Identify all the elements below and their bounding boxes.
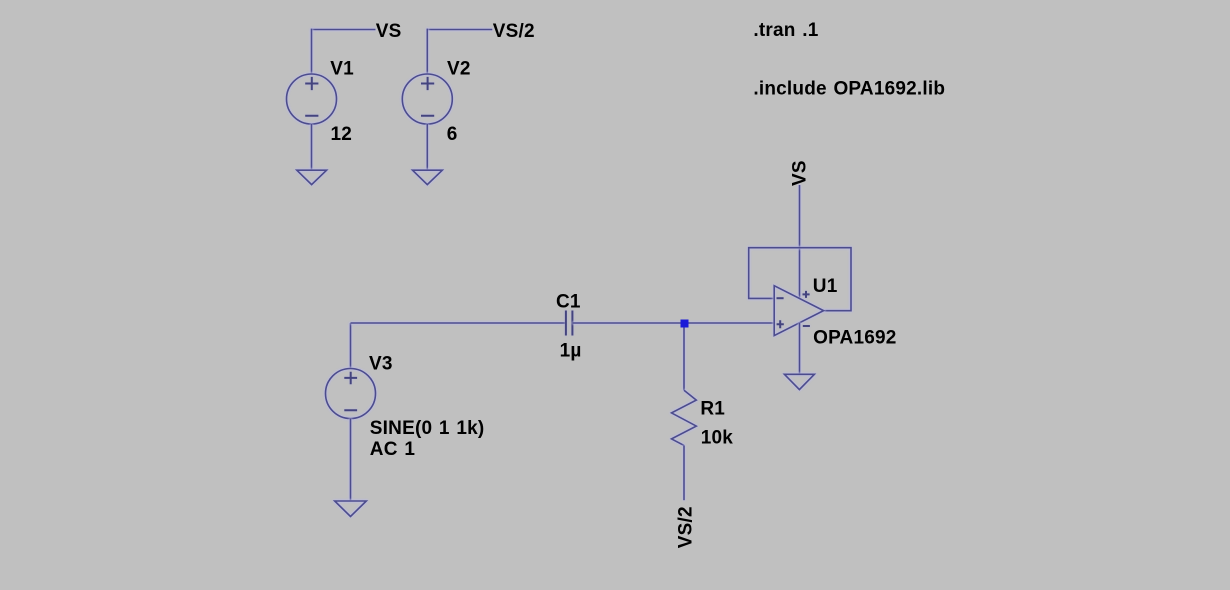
- wire R1 bottom: [683, 445, 685, 500]
- svg-text:6: 6: [447, 124, 458, 145]
- svg-text:VS: VS: [790, 160, 811, 186]
- svg-text:VS/2: VS/2: [493, 21, 535, 42]
- svg-text:U1: U1: [813, 276, 838, 297]
- wire VS to op-amp V+: [799, 185, 801, 298]
- supply plus mark: [803, 291, 810, 298]
- op-amp U1 triangle: [774, 286, 823, 336]
- feedback wire output to inverting input: [749, 248, 851, 311]
- resistor R1: [672, 390, 697, 445]
- svg-text:12: 12: [331, 124, 353, 145]
- ground under V3: [335, 501, 367, 517]
- wire node to R1: [683, 323, 685, 390]
- voltage source V2: [402, 74, 452, 124]
- svg-text:V1: V1: [330, 59, 354, 80]
- svg-text:AC 1: AC 1: [370, 439, 416, 460]
- non-inverting input mark: [777, 320, 784, 328]
- wire C1 to node: [572, 322, 684, 324]
- wire V2 top vertical: [426, 29, 428, 75]
- svg-text:VS: VS: [376, 21, 402, 42]
- wire V2 top horizontal to net VS/2: [427, 29, 492, 31]
- svg-text:10k: 10k: [701, 428, 734, 449]
- junction node: [681, 320, 689, 328]
- ground under V2: [413, 170, 443, 184]
- ground under op-amp: [784, 374, 814, 389]
- voltage source V3: [326, 369, 376, 419]
- wire V2 bottom: [426, 124, 428, 170]
- voltage source V1: [287, 74, 337, 124]
- svg-text:.include OPA1692.lib: .include OPA1692.lib: [753, 79, 945, 100]
- svg-text:1µ: 1µ: [560, 341, 582, 362]
- svg-text:VS/2: VS/2: [676, 506, 697, 548]
- wire V1 top vertical: [311, 29, 313, 75]
- wire V3 bottom: [350, 419, 352, 502]
- capacitor C1: [566, 311, 573, 336]
- supply minus mark: [803, 325, 810, 327]
- wire V3 top: [350, 323, 352, 369]
- svg-text:SINE(0 1 1k): SINE(0 1 1k): [370, 418, 485, 439]
- wire op-amp V- to ground: [799, 323, 801, 374]
- svg-text:V3: V3: [369, 354, 393, 375]
- wire V1 top horizontal to net VS: [312, 29, 376, 31]
- wire V1 bottom: [311, 124, 313, 170]
- svg-text:OPA1692: OPA1692: [813, 328, 896, 349]
- svg-text:C1: C1: [556, 292, 581, 313]
- ground under V1: [297, 170, 327, 184]
- inverting input mark: [777, 297, 784, 299]
- wire node to op-amp input: [685, 322, 775, 324]
- svg-text:R1: R1: [700, 399, 725, 420]
- svg-text:.tran .1: .tran .1: [753, 20, 818, 41]
- wire V3 to C1: [351, 322, 566, 324]
- svg-text:V2: V2: [447, 59, 471, 80]
